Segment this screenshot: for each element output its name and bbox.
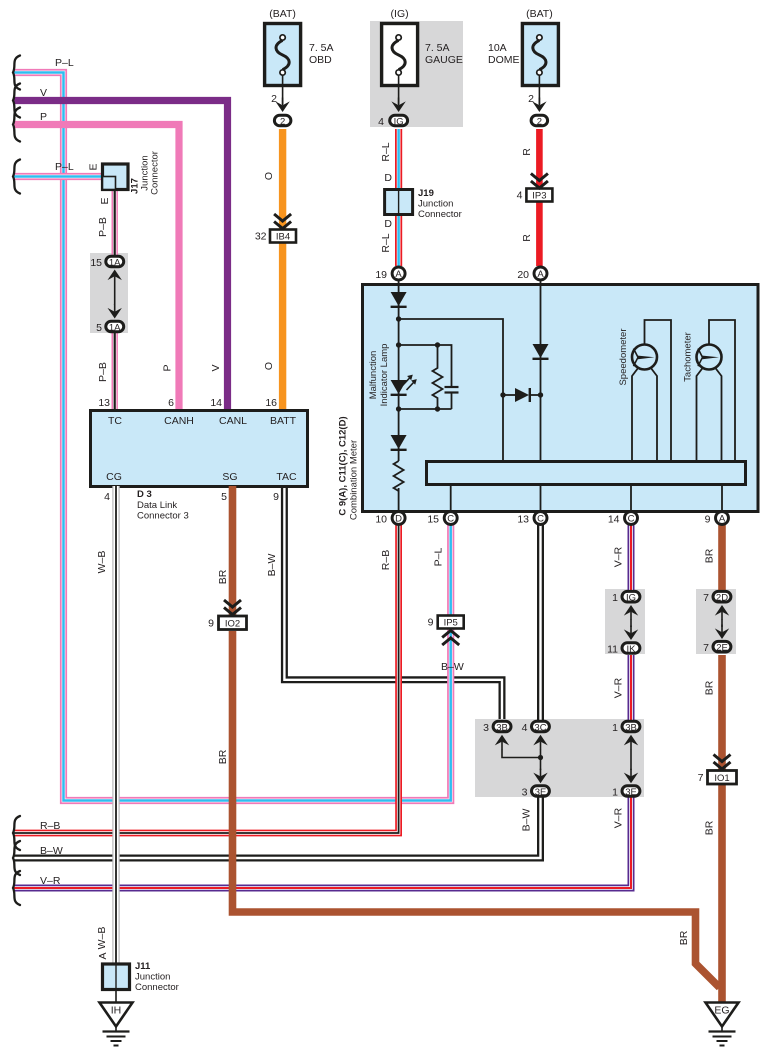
wire P-B from J17 to splice 1A bbox=[111, 190, 117, 255]
wire BR from connector 2E to connector IO1 bbox=[718, 655, 726, 770]
wire B-W from left edge up to connector 3E bbox=[14, 797, 541, 858]
svg-text:15: 15 bbox=[90, 257, 102, 269]
svg-text:9: 9 bbox=[208, 618, 214, 630]
svg-text:C: C bbox=[537, 513, 544, 524]
wire label BR mid right bbox=[704, 680, 716, 695]
label R-B left bbox=[40, 820, 60, 832]
wire label R upper bbox=[521, 148, 533, 156]
svg-text:J19: J19 bbox=[418, 188, 434, 199]
svg-text:Speedometer: Speedometer bbox=[618, 328, 629, 385]
wire label R lower bbox=[521, 234, 533, 242]
wire O from fuse OBD to connector IB4 bbox=[279, 129, 286, 229]
svg-text:R–L: R–L bbox=[380, 142, 392, 161]
svg-text:6: 6 bbox=[168, 397, 174, 409]
wire label BR top right bbox=[704, 548, 716, 563]
svg-text:IH: IH bbox=[111, 1005, 122, 1017]
tachometer gauge bbox=[697, 320, 736, 460]
J19 labels bbox=[384, 172, 461, 230]
wire label V-R upper bbox=[613, 546, 625, 567]
wire R from fuse DOME to connector IP3 bbox=[536, 129, 543, 188]
svg-text:C: C bbox=[447, 513, 454, 524]
svg-text:DOME: DOME bbox=[488, 54, 520, 66]
speedometer gauge bbox=[632, 320, 671, 460]
wire BR from meter pin 9 to connector 2D bbox=[718, 524, 726, 590]
brace wire-continuation V-R bbox=[13, 871, 20, 905]
svg-text:R: R bbox=[521, 234, 533, 242]
svg-text:Data Link: Data Link bbox=[137, 500, 177, 511]
brace wire-continuation P bbox=[13, 108, 20, 142]
splice connector 7 2D bbox=[703, 591, 731, 627]
svg-text:O: O bbox=[263, 172, 275, 180]
splice connector 3 3B bbox=[483, 721, 511, 749]
splice connector 1 3E right bbox=[612, 769, 640, 799]
svg-text:J11: J11 bbox=[135, 961, 151, 972]
svg-text:B–W: B–W bbox=[266, 554, 278, 577]
svg-text:IB4: IB4 bbox=[276, 232, 290, 243]
svg-text:2E: 2E bbox=[716, 643, 728, 654]
connector IO2 bbox=[208, 600, 246, 630]
svg-text:BR: BR bbox=[217, 749, 229, 764]
svg-text:B–W: B–W bbox=[521, 809, 533, 832]
wire BR from connector IO1 to ground EG bbox=[718, 784, 726, 1003]
gray shield box behind connectors 3B/3C/3E bbox=[475, 719, 644, 797]
svg-text:V–R: V–R bbox=[613, 546, 625, 567]
wire V from left edge to D3 CANL pin 14 bbox=[14, 101, 228, 410]
svg-text:9: 9 bbox=[273, 491, 279, 503]
svg-text:O: O bbox=[263, 362, 275, 370]
fuse DOME labels bbox=[488, 8, 553, 105]
svg-text:A: A bbox=[97, 952, 109, 959]
wire W-B from D3 CG pin 4 to junction connector J11 bbox=[112, 486, 119, 963]
svg-text:CANL: CANL bbox=[219, 415, 247, 427]
node dot D4 right bbox=[538, 392, 543, 397]
label P-L lower bbox=[55, 161, 74, 173]
connector IP5 bbox=[428, 616, 464, 646]
svg-text:V–R: V–R bbox=[613, 807, 625, 828]
svg-text:IO2: IO2 bbox=[225, 619, 240, 630]
connector IO1 bbox=[698, 755, 737, 785]
wire label V bbox=[210, 364, 222, 371]
svg-text:5: 5 bbox=[96, 322, 102, 334]
brace wire-continuation B-W bbox=[13, 841, 20, 875]
svg-text:A: A bbox=[719, 513, 726, 524]
label B-W left bbox=[40, 845, 63, 857]
wire label BR mid left bbox=[217, 749, 229, 764]
svg-text:P–B: P–B bbox=[97, 217, 109, 237]
ECU block inside meter bbox=[427, 462, 746, 485]
svg-text:Indicator Lamp: Indicator Lamp bbox=[379, 344, 390, 407]
wire label V-R lower bbox=[613, 807, 625, 828]
meter pin circle 15 C bbox=[427, 512, 457, 526]
svg-text:Junction: Junction bbox=[135, 972, 170, 983]
svg-text:BR: BR bbox=[704, 548, 716, 563]
svg-text:Connector: Connector bbox=[135, 982, 179, 993]
splice connector 5 1A bbox=[96, 304, 124, 334]
svg-text:V: V bbox=[210, 364, 222, 371]
wire label O upper bbox=[263, 172, 275, 180]
node dot 3C link bbox=[538, 755, 543, 760]
svg-text:BR: BR bbox=[704, 680, 716, 695]
J17 labels bbox=[88, 151, 161, 204]
svg-text:P: P bbox=[162, 364, 174, 371]
resistor R1 bbox=[433, 345, 443, 409]
label V-R left bbox=[40, 875, 61, 887]
svg-text:3: 3 bbox=[483, 722, 489, 734]
svg-text:3E: 3E bbox=[535, 787, 547, 798]
wire label P-B upper bbox=[97, 217, 109, 237]
internal wire ECU to pin 13 bbox=[540, 485, 542, 515]
svg-text:7: 7 bbox=[703, 642, 709, 654]
svg-text:3B: 3B bbox=[625, 723, 637, 734]
gray shield box behind GAUGE fuse bbox=[370, 21, 463, 127]
meter pin circle 19 A bbox=[375, 267, 405, 281]
svg-text:Connector: Connector bbox=[418, 209, 462, 220]
svg-text:13: 13 bbox=[98, 397, 110, 409]
svg-text:BR: BR bbox=[678, 930, 690, 945]
svg-text:P–L: P–L bbox=[433, 548, 445, 567]
diode D1 bbox=[391, 292, 407, 307]
svg-text:Junction: Junction bbox=[418, 199, 453, 210]
D3 designation label bbox=[137, 489, 189, 522]
wire label BR below IO1 bbox=[704, 820, 716, 835]
junction connector J11 bbox=[103, 964, 130, 990]
svg-text:20: 20 bbox=[517, 269, 529, 281]
svg-text:C 9(A), C11(C), C12(D): C 9(A), C11(C), C12(D) bbox=[338, 416, 349, 515]
svg-text:15: 15 bbox=[427, 514, 439, 526]
wire V-R from connector IK to connector 3B bbox=[628, 655, 635, 720]
svg-text:4: 4 bbox=[517, 190, 523, 202]
svg-text:Connector 3: Connector 3 bbox=[137, 511, 189, 522]
node dot MIL top bbox=[396, 342, 401, 347]
node dot MIL bottom bbox=[396, 406, 401, 411]
svg-text:3: 3 bbox=[522, 787, 528, 799]
svg-text:3B: 3B bbox=[496, 723, 508, 734]
connector oval 2 below fuse OBD bbox=[274, 115, 291, 127]
svg-text:A: A bbox=[537, 269, 544, 280]
diode D4 horizontal bbox=[503, 388, 541, 402]
wire label B-W upper bbox=[266, 554, 278, 577]
internal wire ECU to pin 15 bbox=[450, 485, 452, 512]
svg-text:1A: 1A bbox=[109, 323, 121, 334]
connector oval 2 below fuse DOME bbox=[531, 115, 548, 127]
meter pin circle 9 A bbox=[705, 512, 729, 526]
svg-text:P–L: P–L bbox=[55, 57, 74, 69]
splice connector 11 IK bbox=[607, 626, 640, 656]
svg-text:B–W: B–W bbox=[40, 845, 63, 857]
svg-text:14: 14 bbox=[210, 397, 222, 409]
svg-text:IO1: IO1 bbox=[714, 773, 729, 784]
svg-text:R–B: R–B bbox=[380, 550, 392, 570]
internal link 3B to 3C bbox=[502, 749, 541, 758]
wire B-W from meter pin 13 to connector 3C bbox=[537, 524, 544, 720]
svg-text:BATT: BATT bbox=[270, 415, 297, 427]
svg-text:W–B: W–B bbox=[96, 927, 108, 950]
svg-text:Malfunction: Malfunction bbox=[368, 351, 379, 400]
svg-text:2: 2 bbox=[537, 117, 542, 128]
splice connector 3 3E bbox=[522, 769, 550, 799]
wire label BR near diagonal bbox=[678, 930, 690, 945]
node dot D4 left bbox=[500, 392, 505, 397]
wire label P bbox=[162, 364, 174, 371]
svg-text:B–W: B–W bbox=[441, 661, 464, 673]
malfunction indicator lamp label bbox=[368, 344, 390, 407]
wire label W-B upper bbox=[96, 551, 108, 574]
label P-L top bbox=[55, 57, 74, 69]
svg-text:9: 9 bbox=[705, 514, 711, 526]
J11 labels bbox=[97, 952, 179, 993]
svg-text:3E: 3E bbox=[625, 787, 637, 798]
wire V-R from left edge up to connector 3E right bbox=[14, 797, 631, 888]
wire R-L from fuse GAUGE to junction connector J19 bbox=[395, 129, 402, 189]
data link connector D3 box bbox=[91, 411, 308, 487]
svg-text:OBD: OBD bbox=[309, 54, 332, 66]
diode D2 bbox=[391, 435, 407, 450]
wire label R-B bbox=[380, 550, 392, 570]
meter internal wire from pin 19 to pin 10 bbox=[398, 275, 400, 515]
meter pin circle 13 C bbox=[517, 512, 547, 526]
brace wire-continuation R-B bbox=[13, 816, 20, 850]
svg-text:W–B: W–B bbox=[96, 551, 108, 574]
svg-text:R–B: R–B bbox=[40, 820, 60, 832]
wire V-R from meter pin 14 to connector IG bbox=[628, 524, 635, 590]
wire R-B from meter pin 10 to left edge bbox=[14, 524, 399, 833]
svg-text:1: 1 bbox=[612, 787, 618, 799]
svg-text:TC: TC bbox=[108, 415, 122, 427]
wire P-L from left edge via bottom run up to meter pin 15 bbox=[14, 73, 451, 801]
splice connector 1 IG bbox=[612, 591, 640, 627]
svg-text:4: 4 bbox=[378, 116, 384, 128]
svg-text:P–B: P–B bbox=[97, 362, 109, 382]
wire label R-L upper bbox=[380, 142, 392, 161]
svg-text:IG: IG bbox=[394, 117, 404, 128]
internal wire from pin 20 to ECU block bbox=[540, 275, 542, 460]
meter pin circle 14 C bbox=[608, 512, 638, 526]
svg-text:Combination Meter: Combination Meter bbox=[349, 440, 360, 520]
gray shield box behind splice 1A pair bbox=[90, 253, 128, 333]
svg-text:E: E bbox=[99, 197, 111, 204]
wire O from connector IB4 to D3 BATT pin 16 bbox=[279, 243, 286, 410]
svg-text:IP3: IP3 bbox=[532, 191, 546, 202]
junction connector J17 bbox=[103, 164, 129, 190]
internal wire branch to diode D4 column bbox=[399, 319, 503, 460]
internal wire ECU to pin 14 bbox=[630, 485, 632, 515]
wire R-L from J19 to meter pin 19 bbox=[395, 215, 402, 266]
svg-text:19: 19 bbox=[375, 269, 387, 281]
wire label V-R mid bbox=[613, 677, 625, 698]
wire label P-B lower bbox=[97, 362, 109, 382]
label P bbox=[40, 111, 47, 123]
svg-text:V: V bbox=[40, 87, 47, 99]
wire label B-W lower bbox=[521, 809, 533, 832]
node dot upper branch bbox=[396, 316, 401, 321]
svg-text:IG: IG bbox=[626, 593, 636, 604]
svg-text:V–R: V–R bbox=[613, 677, 625, 698]
svg-text:CG: CG bbox=[106, 471, 122, 483]
svg-text:11: 11 bbox=[607, 644, 618, 656]
svg-text:D: D bbox=[384, 172, 392, 184]
svg-text:R: R bbox=[521, 148, 533, 156]
svg-text:P–L: P–L bbox=[55, 161, 74, 173]
svg-text:EG: EG bbox=[714, 1005, 729, 1017]
brace wire-continuation P-L top bbox=[13, 56, 20, 90]
svg-text:7: 7 bbox=[703, 592, 709, 604]
svg-text:7. 5A: 7. 5A bbox=[425, 42, 450, 54]
svg-text:Tachometer: Tachometer bbox=[683, 332, 694, 382]
svg-text:5: 5 bbox=[221, 491, 227, 503]
svg-text:D 3: D 3 bbox=[137, 489, 152, 500]
brace wire-continuation P-L lower bbox=[13, 160, 20, 194]
gray shield box behind connectors 2D/2E bbox=[696, 589, 736, 654]
connector oval IG below fuse GAUGE bbox=[390, 115, 408, 127]
wire P from left edge to D3 CANH pin 6 bbox=[14, 125, 179, 410]
svg-text:2: 2 bbox=[280, 117, 285, 128]
svg-text:3C: 3C bbox=[534, 723, 546, 734]
svg-text:7. 5A: 7. 5A bbox=[309, 42, 334, 54]
junction connector J19 bbox=[385, 190, 413, 215]
svg-text:CANH: CANH bbox=[164, 415, 194, 427]
splice connector 7 2E bbox=[703, 625, 731, 655]
svg-text:1: 1 bbox=[612, 722, 618, 734]
node dot resistor R1 top bbox=[435, 342, 440, 347]
ground triangle EG bbox=[706, 1003, 739, 1046]
svg-text:Connector: Connector bbox=[150, 151, 161, 195]
internal wire MIL bottom rail bbox=[399, 408, 452, 410]
svg-text:IP5: IP5 bbox=[444, 618, 458, 629]
diode D5 bbox=[533, 344, 549, 359]
meter pin circle 10 D bbox=[375, 512, 405, 526]
wire P-L from left edge to junction connector J17 bbox=[14, 173, 101, 180]
combination meter box bbox=[363, 285, 759, 512]
svg-text:(BAT): (BAT) bbox=[269, 8, 296, 20]
svg-text:14: 14 bbox=[608, 514, 620, 526]
svg-text:2D: 2D bbox=[716, 593, 728, 604]
LED malfunction indicator lamp bbox=[391, 375, 417, 395]
svg-text:D: D bbox=[395, 513, 402, 524]
svg-text:4: 4 bbox=[104, 491, 110, 503]
connector IB4 bbox=[255, 214, 296, 243]
svg-text:16: 16 bbox=[265, 397, 277, 409]
svg-text:9: 9 bbox=[428, 617, 434, 629]
label V bbox=[40, 87, 47, 99]
capacitor C1 bbox=[445, 387, 459, 409]
fuse GAUGE labels bbox=[378, 8, 463, 128]
svg-text:BR: BR bbox=[704, 820, 716, 835]
fuse GAUGE 7.5A bbox=[382, 24, 418, 113]
svg-text:1: 1 bbox=[612, 592, 618, 604]
svg-text:10: 10 bbox=[375, 514, 387, 526]
svg-text:4: 4 bbox=[522, 722, 528, 734]
wire label BR upper left bbox=[217, 569, 229, 584]
svg-text:7: 7 bbox=[698, 772, 704, 784]
splice connector 4 3C bbox=[522, 721, 550, 770]
wire label P-L bbox=[433, 548, 445, 567]
resistor R2 bbox=[394, 461, 404, 491]
D3 pin number labels bbox=[98, 397, 279, 503]
svg-text:R–L: R–L bbox=[380, 233, 392, 252]
svg-text:SG: SG bbox=[222, 471, 237, 483]
ground triangle IH bbox=[100, 989, 133, 1046]
tachometer label bbox=[683, 332, 694, 382]
wire label R-L lower bbox=[380, 233, 392, 252]
svg-text:TAC: TAC bbox=[276, 471, 297, 483]
svg-text:P: P bbox=[40, 111, 47, 123]
svg-text:13: 13 bbox=[517, 514, 529, 526]
svg-text:32: 32 bbox=[255, 231, 267, 243]
connector IP3 bbox=[517, 174, 553, 202]
diagonal BR join above ground EG bbox=[696, 964, 720, 988]
wire P-B from splice 1A to D3 TC pin 13 bbox=[111, 332, 117, 409]
svg-text:IK: IK bbox=[627, 644, 637, 655]
splice connector 1 3B right bbox=[612, 721, 640, 770]
svg-text:1A: 1A bbox=[109, 258, 121, 269]
svg-text:C: C bbox=[628, 513, 635, 524]
brace wire-continuation V bbox=[13, 84, 20, 118]
meter pin circle 20 A bbox=[517, 267, 547, 281]
wire label O lower bbox=[263, 362, 275, 370]
svg-text:GAUGE: GAUGE bbox=[425, 54, 463, 66]
svg-text:10A: 10A bbox=[488, 42, 507, 54]
svg-text:BR: BR bbox=[217, 569, 229, 584]
internal wire MIL top rail bbox=[399, 345, 452, 386]
svg-text:E: E bbox=[88, 163, 100, 170]
fuse OBD labels bbox=[269, 8, 333, 105]
wire label W-B lower bbox=[96, 927, 108, 950]
svg-text:D: D bbox=[384, 218, 392, 230]
wire R from connector IP3 to meter pin 20 bbox=[536, 202, 543, 266]
wire label B-W horizontal bbox=[441, 661, 464, 673]
gray shield box behind connectors IG/IK bbox=[605, 589, 645, 654]
svg-text:(IG): (IG) bbox=[391, 8, 409, 20]
svg-text:V–R: V–R bbox=[40, 875, 61, 887]
speedometer label bbox=[618, 328, 629, 385]
splice connector 15 1A bbox=[90, 256, 123, 305]
wire BR from D3 SG pin 5 through IO2 to ground EG bbox=[233, 486, 720, 988]
fuse OBD 7.5A bbox=[265, 24, 301, 113]
svg-text:(BAT): (BAT) bbox=[526, 8, 553, 20]
internal wire ECU to pin 9 bbox=[721, 485, 723, 515]
fuse DOME 10A bbox=[522, 24, 558, 113]
node dot resistor R1 bottom bbox=[435, 406, 440, 411]
svg-text:2: 2 bbox=[271, 93, 277, 105]
wire B-W from D3 TAC pin 9 to connector 3B bbox=[284, 486, 502, 719]
combination meter designation label bbox=[338, 416, 360, 520]
svg-text:A: A bbox=[395, 269, 402, 280]
svg-text:2: 2 bbox=[528, 93, 534, 105]
